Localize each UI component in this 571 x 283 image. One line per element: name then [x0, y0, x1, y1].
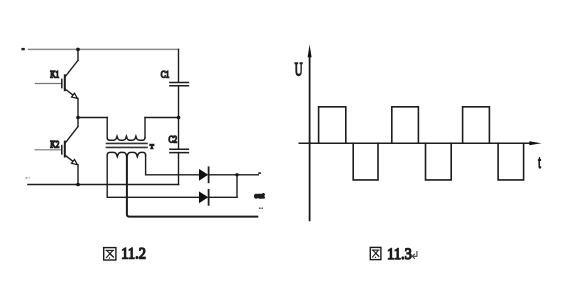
transistor K2: [35, 118, 78, 185]
wire secondary left terminal to D2 anode: [107, 155, 199, 197]
transformer T secondary winding: [107, 152, 145, 156]
wire midpoint to primary left: [78, 117, 107, 119]
node C1-C2 midpoint: [177, 116, 181, 120]
wire bottom rail: [28, 184, 179, 186]
diode D1: [199, 167, 209, 182]
label + (positive bus mark): [21, 48, 24, 50]
return mark: [413, 252, 417, 257]
node K1 collector junction: [76, 48, 80, 52]
waveform square wave: [319, 107, 524, 180]
U axis (vertical): [309, 57, 311, 220]
transistor K1: [36, 49, 79, 117]
svg-text:U: U: [295, 60, 303, 81]
svg-text:C1: C1: [161, 70, 170, 80]
caption figure 11.3 glyph tu: [370, 247, 381, 259]
svg-text:C2: C2: [168, 135, 177, 145]
svg-text:K1: K1: [50, 70, 59, 80]
wire secondary right terminal to D1 anode: [146, 155, 199, 175]
t axis (horizontal): [299, 142, 529, 144]
svg-text:K2: K2: [50, 140, 59, 150]
wire cathode junction vertical: [236, 175, 238, 198]
svg-text:11.3: 11.3: [387, 245, 412, 263]
transformer T primary winding: [107, 118, 145, 141]
node cathode junction: [235, 173, 238, 176]
node K2 emitter junction: [76, 183, 80, 187]
wire primary right to capacitor midpoint: [145, 117, 179, 119]
wire D2 cathode to junction: [209, 196, 237, 198]
capacitor C1: [170, 49, 189, 117]
svg-text:T: T: [150, 144, 154, 151]
wire center tap to negative output: [127, 157, 257, 217]
svg-text:out: out: [254, 192, 265, 200]
label + output mark: [258, 172, 261, 174]
capacitor C2: [170, 118, 189, 185]
wire D1 cathode to positive output: [209, 174, 259, 176]
svg-text:11.2: 11.2: [121, 245, 146, 263]
svg-text:t: t: [538, 153, 541, 173]
caption figure 11.2 glyph tu: [104, 248, 116, 260]
label - output mark: [259, 208, 261, 210]
diode D2: [199, 190, 209, 205]
transformer T core: [107, 142, 148, 144]
label - (negative bus mark): [26, 177, 28, 178]
wire top rail: [28, 48, 178, 50]
node bridge midpoint: [76, 116, 80, 120]
